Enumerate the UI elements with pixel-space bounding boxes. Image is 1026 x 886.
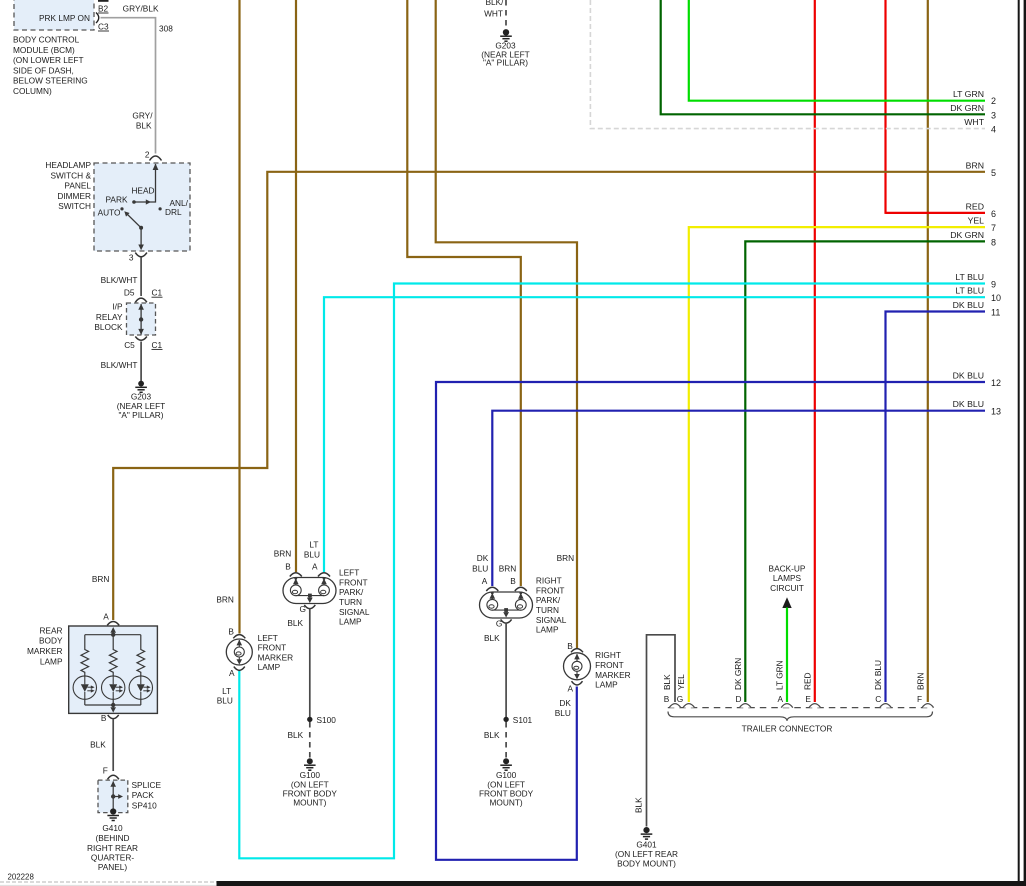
svg-text:B: B: [101, 713, 107, 723]
svg-text:FRONT: FRONT: [536, 585, 565, 595]
svg-text:BLK/: BLK/: [486, 0, 505, 7]
svg-text:BLOCK: BLOCK: [94, 322, 123, 332]
svg-text:RIGHT REAR: RIGHT REAR: [87, 843, 138, 853]
splice pack internal: [112, 782, 114, 810]
svg-text:LEFT: LEFT: [258, 633, 278, 643]
wire 6 RED horizontal: [886, 212, 986, 214]
pin A connector arc: [486, 587, 498, 591]
pin B connector arc: [233, 635, 245, 639]
trailer connector brace: [668, 712, 933, 721]
svg-text:F: F: [917, 694, 922, 704]
svg-text:2: 2: [145, 150, 150, 160]
ground G100 symbol left: [304, 758, 316, 770]
wire 10 LT BLU from left front park lamp pin A: [324, 297, 985, 572]
frame right inner line: [1018, 0, 1020, 886]
svg-text:LAMP: LAMP: [595, 680, 618, 690]
svg-text:(BEHIND: (BEHIND: [95, 833, 129, 843]
relay internal wire: [140, 304, 142, 335]
ground G100 text right: [479, 770, 534, 808]
svg-text:GRY/: GRY/: [132, 111, 153, 121]
wire 6 RED vertical: [884, 0, 886, 214]
right front marker lamp: [555, 553, 631, 718]
lamp outer circle: [564, 653, 591, 680]
pin 2 connector arc: [150, 156, 162, 161]
pin F connector arc: [108, 775, 119, 779]
svg-text:S101: S101: [513, 715, 533, 725]
switch output wire: [140, 228, 142, 248]
arrows up at pins: [491, 593, 493, 600]
svg-text:G: G: [300, 604, 306, 614]
svg-text:TRAILER CONNECTOR: TRAILER CONNECTOR: [742, 724, 833, 734]
wire BLK dashed S100 to G100: [309, 722, 311, 758]
back-up lamps circuit note: [769, 564, 806, 609]
svg-text:(ON LEFT REAR: (ON LEFT REAR: [615, 849, 678, 859]
wire 5 BRN to rear body marker lamp: [113, 172, 985, 620]
wire 7 YEL to trailer pin G: [689, 227, 985, 702]
svg-text:BLK: BLK: [484, 633, 500, 643]
svg-text:7: 7: [991, 223, 996, 233]
svg-text:DK BLU: DK BLU: [953, 399, 984, 409]
pin B connector arc: [108, 715, 119, 719]
bulb common line: [296, 595, 324, 597]
svg-text:DK BLU: DK BLU: [873, 660, 883, 690]
wire BLK lamp G to S100: [309, 609, 311, 718]
svg-text:CIRCUIT: CIRCUIT: [770, 583, 804, 593]
svg-text:LEFT: LEFT: [339, 568, 359, 578]
svg-text:LT GRN: LT GRN: [953, 89, 984, 99]
svg-text:3: 3: [129, 252, 134, 262]
svg-text:LT BLU: LT BLU: [955, 286, 984, 296]
svg-text:I/P: I/P: [112, 302, 123, 312]
svg-text:BACK-UP: BACK-UP: [769, 564, 806, 574]
svg-text:BLK: BLK: [662, 674, 672, 690]
svg-text:DK BLU: DK BLU: [953, 300, 984, 310]
svg-text:8: 8: [991, 237, 996, 247]
ground G203 text: [117, 391, 165, 420]
svg-text:SIDE OF DASH,: SIDE OF DASH,: [13, 65, 74, 75]
svg-text:BRN: BRN: [966, 160, 984, 170]
relay exit connector arc: [135, 337, 147, 341]
svg-text:BLK/WHT: BLK/WHT: [101, 360, 138, 370]
svg-text:(ON LOWER LEFT: (ON LOWER LEFT: [13, 55, 84, 65]
svg-text:LT: LT: [222, 686, 231, 696]
ground G100 text left: [283, 770, 338, 808]
trailer pin bump D: [740, 704, 752, 708]
headlamp switch name: [45, 160, 91, 211]
ground G203 (near left A pillar) symbol top middle: [500, 29, 512, 41]
right front park/turn signal lamp: [472, 553, 567, 635]
svg-text:D: D: [736, 694, 742, 704]
relay block name: [94, 302, 123, 333]
svg-text:11: 11: [991, 308, 1000, 318]
svg-text:FRONT: FRONT: [258, 643, 287, 653]
I/P relay block box: [127, 303, 156, 335]
svg-text:COLUMN): COLUMN): [13, 86, 52, 96]
svg-text:C1: C1: [152, 288, 163, 298]
ground G203 symbol: [135, 381, 147, 393]
left front marker lamp: [216, 594, 293, 705]
svg-text:HEADLAMP: HEADLAMP: [45, 160, 91, 170]
wire BLK/WHT switch to relay: [140, 258, 142, 297]
svg-text:SWITCH &: SWITCH &: [50, 170, 91, 180]
svg-text:MARKER: MARKER: [258, 652, 294, 662]
svg-text:MOUNT): MOUNT): [490, 798, 523, 808]
svg-text:A: A: [778, 694, 784, 704]
bulb: [234, 647, 244, 657]
svg-text:BLU: BLU: [217, 696, 233, 706]
bottom dark bar: [217, 881, 1026, 886]
svg-text:DK GRN: DK GRN: [950, 103, 984, 113]
ground G410 text: [87, 823, 138, 872]
pin B connector arc: [515, 587, 527, 591]
svg-text:BLK: BLK: [287, 618, 303, 628]
wire 4 WHT (dashed light): [590, 0, 985, 129]
bulb common line: [492, 609, 521, 611]
LED 2: [102, 676, 125, 699]
svg-text:LT: LT: [309, 540, 318, 550]
svg-text:B: B: [285, 561, 291, 571]
bottom junction dot: [111, 703, 115, 707]
svg-text:PANEL: PANEL: [64, 181, 91, 191]
body control module (BCM) box: [14, 0, 94, 30]
svg-text:QUARTER-: QUARTER-: [91, 853, 134, 863]
svg-text:BLK: BLK: [90, 739, 106, 749]
svg-text:C: C: [875, 694, 881, 704]
LED 1: [73, 676, 96, 699]
svg-text:RIGHT: RIGHT: [536, 576, 562, 586]
wire 2 LT GRN: [689, 0, 985, 101]
wire 3 DK GRN: [661, 0, 985, 114]
svg-text:LAMP: LAMP: [258, 662, 281, 672]
svg-text:SIGNAL: SIGNAL: [339, 607, 370, 617]
svg-text:G100: G100: [300, 770, 321, 780]
svg-text:LT BLU: LT BLU: [955, 272, 984, 282]
top junction dot: [111, 633, 115, 637]
wire 9 LT BLU from left front marker lamp: [239, 284, 985, 859]
svg-text:B: B: [567, 641, 573, 651]
svg-text:PARK/: PARK/: [536, 595, 561, 605]
ground G401 text: [615, 840, 678, 869]
pin C3 connector bracket: [96, 13, 99, 24]
wire 8 DK GRN to trailer pin D: [745, 241, 985, 702]
svg-text:DIMMER: DIMMER: [57, 191, 91, 201]
left front park/turn signal lamp: [274, 540, 370, 627]
svg-text:G: G: [677, 694, 683, 704]
wire BLK rear lamp to splice pack: [112, 719, 114, 771]
svg-text:F: F: [103, 766, 108, 776]
svg-text:PRK LMP ON: PRK LMP ON: [39, 13, 90, 23]
pin G connector arc: [501, 619, 512, 623]
arrow down to G: [309, 596, 311, 601]
svg-text:A: A: [568, 684, 574, 694]
svg-text:A: A: [229, 668, 235, 678]
ground G203 text top middle: [481, 40, 529, 67]
lamp housing: [480, 592, 533, 618]
svg-text:MARKER: MARKER: [27, 646, 63, 656]
wire 12 DK BLU from right front marker lamp: [436, 382, 985, 860]
trailer pin bump G: [683, 704, 695, 708]
arrow up at pin 2 inside: [153, 164, 159, 171]
svg-text:B: B: [664, 694, 670, 704]
wire BLK trailer pin B to G401: [647, 635, 676, 827]
svg-text:BLU: BLU: [472, 564, 488, 574]
trailer connector dashed line: [668, 707, 933, 709]
svg-text:MARKER: MARKER: [595, 670, 631, 680]
pin B connector arc: [571, 649, 583, 653]
lamp housing: [283, 578, 336, 604]
pin A connector arc: [234, 667, 245, 671]
svg-text:A: A: [103, 612, 109, 622]
arrow down at pin 3 inside: [138, 245, 144, 251]
trailer pin bump B: [669, 704, 681, 708]
branch 2 resistor: [109, 635, 117, 676]
bulb B: [290, 585, 301, 596]
svg-text:RED: RED: [966, 201, 984, 211]
wire BRN to right front marker lamp: [436, 0, 577, 648]
arrow right on PARK line: [146, 199, 151, 204]
svg-text:S100: S100: [317, 715, 337, 725]
ANL/DRL contact dot: [159, 207, 162, 210]
svg-text:G203: G203: [131, 391, 152, 401]
svg-text:BRN: BRN: [915, 672, 925, 690]
svg-text:10: 10: [991, 293, 1001, 303]
svg-text:308: 308: [159, 24, 173, 34]
svg-text:LAMPS: LAMPS: [773, 573, 802, 583]
svg-text:BLK: BLK: [288, 730, 304, 740]
bottom page border (left, light): [0, 881, 217, 883]
svg-text:PACK: PACK: [132, 790, 154, 800]
top rail: [85, 634, 141, 636]
svg-text:BELOW STEERING: BELOW STEERING: [13, 76, 88, 86]
svg-text:"A" PILLAR): "A" PILLAR): [483, 58, 528, 68]
arrow up symbol: [782, 597, 791, 608]
pin stub above B2: [98, 0, 109, 2]
svg-text:13: 13: [991, 407, 1001, 417]
common junction dot: [504, 608, 508, 612]
bulb A: [487, 599, 498, 610]
svg-text:LAMP: LAMP: [339, 617, 362, 627]
svg-text:REAR: REAR: [39, 625, 62, 635]
svg-text:WHT: WHT: [964, 117, 984, 127]
LED 3: [129, 676, 152, 699]
pin A connector arc: [107, 622, 119, 626]
BCM name text: [13, 35, 88, 97]
wire BLK lamp G to S101: [505, 623, 507, 718]
trailer pin bump F: [922, 704, 934, 708]
svg-text:YEL: YEL: [676, 674, 686, 690]
svg-text:BRN: BRN: [216, 594, 234, 604]
wire BLK/WHT relay to ground: [140, 342, 142, 382]
rear body marker lamp: [27, 574, 157, 723]
splice pack SP410 box: [98, 780, 128, 813]
svg-text:B2: B2: [98, 4, 109, 14]
svg-text:BLK: BLK: [136, 121, 152, 131]
entry arrow up: [112, 629, 114, 635]
trailer pin bump C: [880, 704, 892, 708]
wire 11 DK BLU to trailer pin C: [886, 312, 986, 703]
svg-text:202228: 202228: [8, 873, 35, 882]
svg-text:C5: C5: [124, 340, 135, 350]
ground G401 symbol: [641, 827, 653, 839]
svg-text:A: A: [312, 561, 318, 571]
svg-text:BRN: BRN: [557, 553, 575, 563]
ground G100 symbol right: [500, 758, 512, 770]
svg-text:BRN: BRN: [274, 548, 292, 558]
svg-text:2: 2: [991, 96, 996, 106]
svg-text:B: B: [510, 576, 516, 586]
pin A connector arc: [318, 573, 330, 577]
svg-text:BODY: BODY: [39, 636, 63, 646]
top middle dashed BLK/WHT wire: [505, 0, 507, 29]
svg-text:9: 9: [991, 280, 996, 290]
wire GRY/BLK from BCM to headlamp switch: [101, 18, 156, 154]
lamp box: [69, 626, 158, 713]
svg-text:DK: DK: [559, 698, 571, 708]
svg-text:E: E: [805, 694, 811, 704]
bulb B: [515, 599, 526, 610]
ground G410 symbol: [107, 808, 119, 820]
svg-text:FRONT: FRONT: [595, 660, 624, 670]
svg-text:D5: D5: [124, 288, 135, 298]
svg-text:"A" PILLAR): "A" PILLAR): [118, 410, 163, 420]
splice S100: [307, 717, 312, 722]
pin 3 connector arc: [135, 253, 147, 257]
svg-text:TURN: TURN: [339, 597, 362, 607]
svg-text:A: A: [482, 576, 488, 586]
svg-text:DK GRN: DK GRN: [950, 230, 984, 240]
svg-text:G410: G410: [102, 823, 123, 833]
wire 13 DK BLU from right front park lamp pin A: [492, 411, 985, 586]
splice S101: [503, 717, 508, 722]
pin G connector arc: [304, 605, 315, 609]
arrow down inside: [576, 672, 578, 677]
trailer pin bump E: [809, 704, 821, 708]
wire BRN to trailer pin F: [927, 0, 929, 702]
svg-text:BRN: BRN: [92, 574, 110, 584]
svg-text:C3: C3: [98, 22, 109, 32]
svg-text:SIGNAL: SIGNAL: [536, 615, 567, 625]
headlamp switch box: [94, 163, 190, 251]
arrow down inside: [238, 657, 240, 662]
svg-text:LT GRN: LT GRN: [775, 660, 785, 690]
svg-text:BODY MOUNT): BODY MOUNT): [617, 859, 676, 869]
svg-text:BODY CONTROL: BODY CONTROL: [13, 35, 80, 45]
svg-text:PARK: PARK: [106, 194, 128, 204]
wire BRN to left front marker lamp: [238, 0, 240, 634]
svg-text:RED: RED: [802, 672, 812, 690]
switch internal wire from pin 2: [134, 164, 156, 202]
wire BRN to right front park lamp pin B: [407, 0, 521, 586]
svg-text:B: B: [228, 627, 234, 637]
wire LT GRN backup circuit to trailer pin A: [786, 608, 788, 703]
svg-text:C1: C1: [152, 340, 163, 350]
svg-text:LAMP: LAMP: [536, 625, 559, 635]
svg-text:RIGHT: RIGHT: [595, 650, 621, 660]
svg-text:RELAY: RELAY: [96, 312, 123, 322]
bottom rail: [85, 704, 141, 706]
exit arrow down: [112, 705, 114, 710]
pin A connector arc: [572, 681, 583, 685]
frame right outer line: [1024, 0, 1026, 886]
svg-text:AUTO: AUTO: [98, 207, 121, 217]
arrows up at pins: [295, 578, 297, 585]
wire RED to trailer pin E: [814, 0, 816, 702]
svg-text:DRL: DRL: [165, 207, 182, 217]
svg-text:BLU: BLU: [555, 708, 571, 718]
svg-text:6: 6: [991, 209, 996, 219]
branch 1 resistor: [81, 635, 89, 676]
pin B connector arc: [290, 573, 302, 577]
arrow down to G: [505, 610, 507, 615]
svg-text:SP410: SP410: [132, 801, 157, 811]
svg-text:MODULE (BCM): MODULE (BCM): [13, 45, 75, 55]
AUTO contact dot: [120, 207, 123, 210]
svg-text:PARK/: PARK/: [339, 587, 364, 597]
svg-text:MOUNT): MOUNT): [293, 798, 326, 808]
svg-text:TURN: TURN: [536, 605, 559, 615]
svg-text:PANEL): PANEL): [98, 862, 128, 872]
lamp outer circle: [226, 639, 252, 665]
arrow up inside: [576, 654, 578, 661]
bulb A: [319, 585, 330, 596]
svg-text:BLK: BLK: [634, 797, 644, 813]
branch 3 resistor: [137, 635, 145, 676]
svg-text:G100: G100: [496, 770, 517, 780]
svg-text:DK: DK: [477, 553, 489, 563]
svg-text:G: G: [496, 619, 502, 629]
svg-text:FRONT: FRONT: [339, 577, 368, 587]
svg-text:5: 5: [991, 168, 996, 178]
svg-text:BLU: BLU: [304, 549, 320, 559]
svg-text:BLK/WHT: BLK/WHT: [101, 275, 138, 285]
switch lever: [127, 214, 141, 228]
wire BRN to left front park lamp pin B: [295, 0, 297, 572]
svg-text:BLK: BLK: [484, 730, 500, 740]
svg-text:12: 12: [991, 378, 1001, 388]
PARK contact dot: [132, 200, 136, 204]
svg-text:DK BLU: DK BLU: [953, 371, 984, 381]
svg-text:DK GRN: DK GRN: [733, 658, 743, 690]
svg-text:YEL: YEL: [968, 216, 985, 226]
svg-text:3: 3: [991, 110, 996, 120]
svg-text:BRN: BRN: [499, 564, 517, 574]
svg-text:HEAD: HEAD: [131, 186, 154, 196]
svg-text:WHT: WHT: [484, 9, 503, 19]
relay entry connector arc: [135, 298, 147, 302]
trailer pin bump A: [781, 704, 793, 708]
svg-text:LAMP: LAMP: [40, 656, 63, 666]
switch pivot dot: [139, 226, 143, 230]
svg-text:4: 4: [991, 125, 996, 135]
svg-text:GRY/BLK: GRY/BLK: [123, 4, 159, 14]
arrow up inside: [238, 640, 240, 647]
wire BLK dashed S101 to G100: [505, 722, 507, 758]
svg-text:SPLICE: SPLICE: [132, 780, 162, 790]
bulb: [572, 661, 582, 671]
common junction dot: [308, 594, 312, 598]
svg-text:SWITCH: SWITCH: [58, 201, 91, 211]
